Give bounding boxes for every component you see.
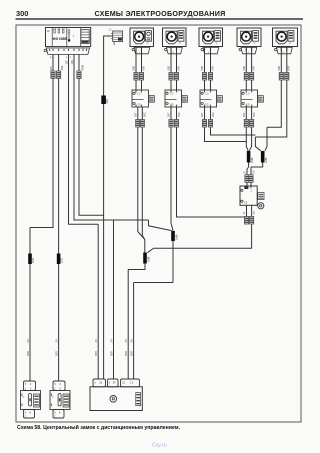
splice sleeve	[57, 254, 61, 265]
svg-text:2МВ: 2МВ	[250, 157, 254, 163]
svg-text:05Г: 05Г	[167, 112, 171, 117]
connector bracket under M2	[167, 48, 183, 54]
splice sleeve R1	[247, 151, 251, 163]
wires M4 to B4	[246, 47, 251, 91]
splice sleeve B2	[171, 231, 175, 241]
svg-text:05Г: 05Г	[242, 112, 246, 117]
header rule	[16, 18, 304, 19]
svg-text:05П: 05П	[26, 351, 30, 356]
svg-text:2Ч: 2Ч	[124, 339, 128, 342]
splice sleeve R2	[261, 151, 265, 163]
svg-text:05П: 05П	[54, 351, 58, 356]
svg-text:2КЧ: 2КЧ	[105, 99, 109, 104]
svg-text:НЗ: НЗ	[53, 36, 59, 41]
svg-text:Cxy.ru: Cxy.ru	[152, 443, 167, 449]
wires B4 down	[246, 107, 251, 151]
inline connector on wire fuse-1	[51, 71, 55, 75]
svg-text:10Ч: 10Ч	[70, 60, 74, 65]
door switch S1	[24, 381, 36, 391]
svg-text:Схема 58. Центральный замок с: Схема 58. Центральный замок с дистанцион…	[17, 424, 181, 431]
svg-text:05Б: 05Б	[242, 66, 246, 71]
inline connectors	[244, 73, 248, 77]
inline connectors	[202, 120, 206, 124]
svg-text:05Б: 05Б	[277, 66, 281, 71]
svg-text:2Ч: 2Ч	[54, 339, 58, 342]
wire from connector K	[104, 36, 113, 380]
door lock motor unit M2	[163, 28, 187, 47]
svg-text:2Ч: 2Ч	[129, 339, 133, 342]
svg-text:05Ч: 05Ч	[141, 66, 145, 71]
svg-text:05Б: 05Б	[200, 66, 204, 71]
svg-text:2Ч: 2Ч	[109, 339, 113, 342]
lock switch box B2	[165, 90, 182, 107]
svg-text:05П: 05П	[94, 351, 98, 356]
wire fuse-1	[30, 54, 53, 381]
svg-text:2МВ: 2МВ	[146, 256, 150, 262]
splice sleeve on K wire	[101, 96, 106, 105]
inline connectors	[244, 120, 248, 124]
svg-text:1Ч: 1Ч	[252, 211, 256, 214]
wires B3 bend right	[205, 107, 256, 142]
inline connector on wire fuse-5	[77, 71, 81, 75]
wires M3 to B3	[205, 47, 211, 91]
wire fuse-5	[79, 54, 104, 215]
svg-text:05Б: 05Б	[132, 66, 136, 71]
svg-text:05П: 05П	[109, 351, 113, 356]
inline connectors	[169, 120, 173, 124]
svg-text:05Ч: 05Ч	[210, 66, 214, 71]
wires B1 down / merge	[138, 107, 145, 253]
lock switch box B4	[241, 90, 258, 107]
svg-text:05Г: 05Г	[134, 112, 138, 117]
splice sleeve B1	[143, 253, 147, 264]
lock switch box B1	[132, 90, 149, 107]
svg-text:2Ч: 2Ч	[94, 339, 98, 342]
wires M1 to B1	[136, 47, 142, 91]
svg-text:05П: 05П	[124, 351, 128, 356]
svg-text:2Ч: 2Ч	[26, 339, 30, 342]
inline connectors	[136, 120, 140, 124]
inline connectors	[244, 217, 248, 221]
wires M5 long	[255, 47, 286, 151]
relay (central locking)	[240, 186, 257, 205]
diagram frame	[16, 25, 301, 422]
wire fuse-2	[58, 54, 60, 381]
door lock motor unit M1	[130, 28, 154, 47]
inline connector	[249, 175, 253, 179]
relay bottom wires	[147, 205, 251, 252]
svg-text:05С: 05С	[211, 112, 215, 117]
wire B1 to unit	[128, 264, 145, 380]
wire R1 to relay	[247, 163, 249, 187]
svg-text:05Ч: 05Ч	[287, 66, 291, 71]
wire R2 to relay	[251, 163, 263, 187]
svg-text:2СП: 2СП	[60, 258, 64, 263]
svg-text:05Г: 05Г	[49, 65, 53, 70]
wire fuse-3	[69, 54, 99, 379]
svg-text:05Ж: 05Ж	[80, 64, 84, 70]
fuse box F	[46, 28, 91, 47]
door lock motor unit M4	[237, 28, 261, 47]
svg-text:ИЗБ: ИЗБ	[59, 37, 67, 41]
svg-text:05П: 05П	[129, 351, 133, 356]
central locking control unit	[93, 379, 106, 387]
connector bracket under M5	[277, 48, 293, 54]
wires M2 to B2	[171, 47, 177, 91]
svg-text:05Ч: 05Ч	[251, 66, 255, 71]
svg-text:1Ч: 1Ч	[251, 170, 255, 173]
wire fuse-4	[74, 54, 172, 379]
connector K (top)	[113, 31, 123, 42]
svg-text:05С: 05С	[177, 112, 181, 117]
svg-text:05Б: 05Б	[60, 65, 64, 70]
inline connectors	[169, 73, 173, 77]
connector bracket under M3	[203, 48, 219, 54]
inline connector on wire fuse-2	[57, 71, 61, 75]
merge funnel right	[255, 137, 260, 151]
inline connectors	[279, 73, 283, 77]
svg-text:2МВ: 2МВ	[264, 157, 268, 163]
splice sleeve	[28, 254, 32, 265]
inline connectors	[134, 73, 138, 77]
connector bracket under M1	[134, 48, 150, 54]
svg-text:300: 300	[16, 9, 28, 18]
wire B2 to unit	[134, 283, 173, 380]
svg-text:2МВ: 2МВ	[174, 234, 178, 240]
svg-text:05Г: 05Г	[200, 112, 204, 117]
connector bracket under M4	[241, 48, 257, 54]
inline connectors	[202, 73, 206, 77]
svg-text:СХЕМЫ ЭЛЕКТРООБОРУДОВАНИЯ: СХЕМЫ ЭЛЕКТРООБОРУДОВАНИЯ	[94, 9, 225, 18]
svg-text:05Б: 05Б	[167, 66, 171, 71]
inline connector	[245, 175, 249, 179]
svg-text:2СП: 2СП	[31, 258, 35, 263]
wires B2 down / merge	[171, 107, 246, 283]
svg-text:05Ч: 05Ч	[176, 66, 180, 71]
svg-text:05С: 05С	[252, 112, 256, 117]
door lock motor unit M3	[199, 28, 223, 47]
svg-text:05С: 05С	[143, 112, 147, 117]
lock switch box B3	[200, 90, 217, 107]
svg-text:10Г: 10Г	[65, 60, 69, 65]
fuse box connector bracket	[46, 48, 89, 54]
door lock motor unit M5	[273, 28, 298, 47]
door switch S2	[53, 381, 65, 391]
